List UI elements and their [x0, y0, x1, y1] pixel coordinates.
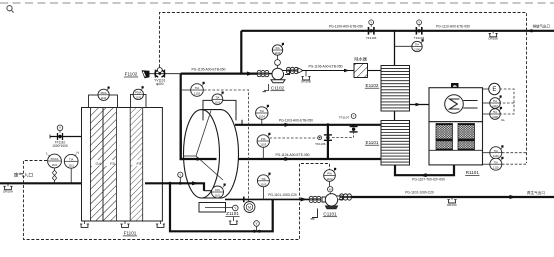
solenoid Y: [233, 205, 239, 211]
svg-text:除水器: 除水器: [354, 56, 367, 63]
svg-text:PG-1101-1000-C20: PG-1101-1000-C20: [268, 193, 297, 197]
bellows C1102 discharge: [287, 67, 299, 73]
label R1101: [465, 170, 479, 175]
svg-text:1105: 1105: [260, 182, 266, 186]
svg-text:F9: F9: [137, 161, 142, 166]
svg-text:PISCA: PISCA: [51, 157, 59, 161]
svg-text:TIA: TIA: [261, 177, 265, 181]
svg-text:PDIA: PDIA: [135, 91, 141, 95]
blower C1102: [271, 68, 290, 83]
svg-text:DR10C: DR10C: [447, 203, 458, 207]
svg-text:TIA: TIA: [69, 158, 73, 162]
svg-text:再生气出口: 再生气出口: [527, 190, 545, 195]
C1101 motor stub: [329, 192, 331, 194]
wire: arrow on outlet duct: [192, 181, 199, 185]
bellows C1101 suction: [309, 196, 321, 202]
igniter on top: [451, 83, 459, 88]
reactor R1101 catalyst section: [429, 122, 483, 165]
pipe: F1101 outlet to fan: [145, 183, 204, 190]
bellows C1101 discharge: [340, 194, 352, 200]
svg-text:Y: Y: [179, 173, 181, 177]
fan inner instrument XSV-1101: [212, 186, 224, 198]
pipe: riser to top recycle line: [240, 31, 242, 74]
heat exchanger E1101: [381, 121, 410, 166]
drain DR10B: [301, 71, 311, 84]
instrument TIA-1110: [483, 163, 490, 165]
fan blades: [183, 111, 223, 181]
filter bed F9: [130, 108, 143, 222]
svg-text:TF1103: TF1103: [366, 36, 377, 40]
drain on top line: [489, 31, 499, 41]
drain DR10C: [447, 197, 458, 207]
svg-text:Z1101: Z1101: [226, 211, 239, 216]
catalyst bed 1: [436, 124, 453, 151]
dewaterer 除水器: [354, 64, 368, 78]
pipe: E1102 to R1101: [410, 104, 430, 106]
svg-text:F1101: F1101: [124, 231, 137, 236]
pipe: C1102 discharge PG-1106: [300, 70, 354, 72]
catalyst bed 2: [458, 124, 475, 151]
svg-text:R1101: R1101: [466, 170, 480, 175]
instrument XIA-1102: [272, 45, 282, 55]
bellows C1102 suction: [257, 70, 269, 76]
svg-text:PG-1109-A00-ETB-050: PG-1109-A00-ETB-050: [329, 25, 363, 29]
instrument TIA-1106: [412, 41, 422, 51]
pipe: branch down to C1101 suction duct: [170, 183, 273, 231]
svg-text:E: E: [492, 87, 496, 93]
bed labels: [92, 160, 142, 166]
damper TF1107 below fan outlet line: [353, 132, 355, 138]
pipe: hub line redrawn over drum: [181, 120, 217, 159]
svg-text:Y: Y: [418, 20, 420, 24]
svg-text:Y: Y: [353, 114, 355, 118]
svg-text:TIA: TIA: [260, 109, 264, 113]
svg-text:XSV: XSV: [215, 188, 220, 192]
label Z1101: [225, 211, 239, 216]
instrument TIA-1108: [483, 113, 490, 115]
solenoid Y on suction duct: [256, 226, 258, 231]
vessel top plenum boxes: [89, 95, 118, 108]
pipe: damper branch down: [327, 125, 329, 159]
filter bed F5: [103, 108, 116, 222]
reactor R1101 combustion chamber: [429, 88, 483, 122]
instrument TIA-1103: [212, 94, 223, 105]
damper TF1103: [366, 20, 377, 40]
damper TF1110 on vessel wall: [50, 136, 82, 138]
instrument PDIA-1104: [98, 89, 109, 100]
svg-text:DR108: DR108: [489, 37, 499, 41]
svg-text:1103: 1103: [215, 101, 221, 105]
svg-text:1104: 1104: [259, 115, 265, 119]
reducer after C1102 bellows: [298, 68, 302, 73]
svg-text:1101: 1101: [52, 163, 58, 167]
svg-text:PDIA: PDIA: [101, 91, 107, 95]
svg-text:TF1106: TF1106: [315, 142, 326, 146]
pipe: E1102 to top line: [394, 31, 396, 66]
svg-text:PG-1106-A00-ETB-050: PG-1106-A00-ETB-050: [308, 64, 342, 68]
instrument TIA-1107: [483, 102, 490, 104]
instrument PIA-1102: [329, 181, 331, 186]
pipe: vertical into fan hub: [181, 74, 217, 159]
svg-text:F1102: F1102: [125, 72, 138, 77]
signal dashed to fan: [204, 90, 249, 201]
svg-text:排放气出口: 排放气出口: [533, 24, 551, 29]
instrument PISCA-1101: [54, 168, 56, 183]
svg-text:1111: 1111: [68, 163, 74, 167]
svg-text:TIA: TIA: [415, 43, 419, 47]
top drawing frame dashed line: [0, 2, 554, 4]
svg-text:TIA: TIA: [494, 149, 498, 153]
svg-text:TIA: TIA: [195, 86, 199, 90]
svg-text:PIA: PIA: [261, 137, 266, 141]
svg-text:PG-1103-A00-ETB-050: PG-1103-A00-ETB-050: [279, 119, 313, 123]
fan base: [199, 203, 226, 213]
C1102 motor stub: [277, 55, 279, 59]
svg-text:TIA: TIA: [493, 110, 497, 114]
damper TF1104: [414, 20, 425, 40]
svg-text:1107: 1107: [492, 104, 498, 108]
svg-text:1109: 1109: [493, 154, 499, 158]
svg-text:1102: 1102: [275, 51, 281, 55]
pipe: waste gas inlet: [0, 182, 82, 184]
instrument TIA-1102: [182, 89, 191, 91]
svg-text:E1101: E1101: [366, 140, 379, 145]
instrument E (igniter): [483, 88, 490, 90]
svg-text:1110: 1110: [493, 166, 499, 170]
svg-text:TIA: TIA: [493, 99, 497, 103]
pipe: lower line PG-1104: [238, 158, 381, 160]
svg-text:1108: 1108: [492, 115, 498, 119]
pipe: fan outlet PG-1103: [235, 124, 381, 126]
svg-text:PG-1102-1000-C20: PG-1102-1000-C20: [405, 191, 434, 195]
instrument TIA-1105: [262, 187, 264, 200]
drain DR10A: [3, 183, 13, 193]
svg-text:Y: Y: [370, 20, 372, 24]
fan Z1101 drum: [184, 110, 239, 198]
label C1101 with drain hook: [311, 209, 318, 219]
svg-text:1102: 1102: [326, 177, 332, 181]
svg-text:E1102: E1102: [366, 83, 379, 88]
svg-text:TIA: TIA: [215, 96, 219, 100]
vessel F1101: [82, 108, 163, 222]
svg-text:PIA: PIA: [327, 172, 332, 176]
svg-text:M: M: [248, 205, 251, 209]
magnifier icon: [7, 6, 14, 13]
pipe: E1102-E1101 connector: [394, 111, 396, 121]
pipe: fresh air line to YV1101: [149, 73, 181, 75]
flange on suction line: [243, 197, 245, 203]
fan drain: [229, 217, 238, 224]
pipe: top line PG-1109/PG-1110: [241, 30, 554, 32]
svg-text:1102: 1102: [194, 92, 200, 96]
instrument TIA-1104: [261, 119, 263, 125]
valve YV1101 with actuator: [155, 70, 165, 78]
burner: [445, 95, 464, 114]
svg-text:C1101: C1101: [323, 211, 337, 216]
solenoid Y on outlet duct: [179, 177, 181, 183]
signal dashed to TF1106: [270, 137, 318, 139]
instrument PDIA-1105: [133, 89, 143, 99]
svg-text:DR10B: DR10B: [301, 80, 311, 84]
svg-text:PG-1105-A00-ETB-050: PG-1105-A00-ETB-050: [191, 68, 225, 72]
F1101 bottom drains: [80, 221, 89, 227]
pipe: R1101 bottom return PG-1107: [395, 165, 454, 175]
pipe: PG-1105 suction header: [181, 72, 258, 74]
svg-text:φ400: φ400: [156, 82, 164, 86]
svg-text:1101: 1101: [215, 194, 221, 198]
svg-text:DR10A: DR10A: [3, 190, 13, 194]
label C1102 with drain hook: [263, 84, 269, 92]
heat exchanger E1102: [381, 66, 410, 112]
svg-text:1104: 1104: [101, 96, 107, 100]
svg-text:TIA: TIA: [494, 160, 498, 164]
signal dashes: [500, 89, 515, 114]
svg-text:XIA: XIA: [275, 46, 279, 50]
damper TF1106 on vertical duct: [318, 136, 322, 140]
svg-text:1000*1000: 1000*1000: [52, 144, 68, 148]
svg-text:L: L: [46, 152, 48, 156]
instrument TIA-1109: [483, 152, 490, 154]
svg-text:G4: G4: [96, 161, 102, 166]
svg-text:废气入口: 废气入口: [14, 172, 33, 179]
fan motor M: [244, 202, 255, 213]
svg-text:PG-1104-A00-ETE-050: PG-1104-A00-ETE-050: [275, 153, 309, 157]
filter bed G4: [90, 108, 103, 222]
svg-text:F5: F5: [110, 161, 115, 166]
svg-text:1105: 1105: [136, 96, 142, 100]
instrument PIA-1103: [262, 147, 264, 159]
svg-text:1103: 1103: [260, 143, 266, 147]
svg-text:C1102: C1102: [271, 85, 285, 90]
label F1101: [123, 231, 137, 236]
svg-text:PG-1107-T00-ICF-000: PG-1107-T00-ICF-000: [412, 177, 445, 181]
pipe: C1101 discharge PG-1102: [351, 196, 554, 198]
svg-text:GL: GL: [501, 118, 505, 122]
filter F1102 (air intake): [142, 70, 150, 78]
svg-text:PG-1110-A00-ETE-050: PG-1110-A00-ETE-050: [436, 25, 470, 29]
instrument TIA-1111: [70, 169, 72, 184]
svg-text:1106: 1106: [414, 48, 420, 52]
fan inlet box: [203, 100, 236, 120]
svg-text:TF1107: TF1107: [339, 116, 350, 120]
pump C1101: [322, 194, 343, 209]
pipe: C1101 suction PG-1101: [225, 198, 310, 200]
